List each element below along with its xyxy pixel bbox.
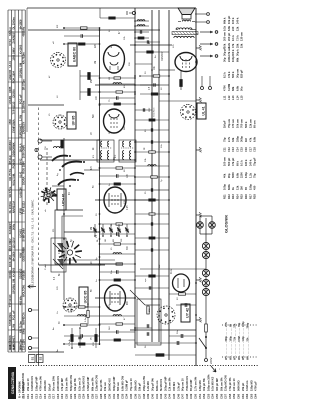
svg-text:C18: C18 <box>253 147 257 152</box>
svg-text:SYMFONIA: SYMFONIA <box>12 119 16 133</box>
svg-text:WOLTOM.: WOLTOM. <box>22 284 26 297</box>
legend header bar <box>8 367 25 399</box>
tube V3 socket top view <box>53 115 67 129</box>
svg-text:SR 571m: SR 571m <box>8 186 12 198</box>
resistor <box>100 323 136 325</box>
band switch wiper arcs <box>52 155 100 187</box>
svg-text:470 om: 470 om <box>231 118 235 128</box>
svg-text:240 om 10: 240 om 10 <box>232 378 236 391</box>
resistor <box>64 43 100 45</box>
svg-text:W1 . . . . . . . . . . 300p: W1 . . . . . . . . . . 300p . . . . . . … <box>225 321 228 360</box>
eye area stubs <box>135 275 169 290</box>
svg-text:1.5W: 1.5W <box>12 323 16 330</box>
speaker LS <box>178 8 195 19</box>
wire riser C <box>95 84 159 86</box>
svg-text:50u: 50u <box>240 86 244 91</box>
bias network components <box>68 303 97 349</box>
svg-text:SR 571m: SR 571m <box>22 79 26 91</box>
svg-text:Uz: Uz <box>57 311 59 314</box>
capacitor <box>135 165 169 167</box>
wire junctions <box>63 27 197 345</box>
resistor <box>100 91 136 93</box>
svg-text:300p: 300p <box>240 136 244 142</box>
svg-text:R18: R18 <box>253 194 257 199</box>
svg-text:9.1k: 9.1k <box>223 25 227 31</box>
svg-text:30p pF 5%: 30p pF 5% <box>151 377 155 391</box>
svg-text:6.8k: 6.8k <box>235 85 239 91</box>
capacitor <box>100 253 136 255</box>
svg-text:390k MO: 390k MO <box>133 380 137 391</box>
svg-text:150p: 150p <box>248 184 252 190</box>
switch frame wires <box>55 210 122 264</box>
wire riser G <box>95 199 159 201</box>
svg-text:C11: C11 <box>223 147 227 152</box>
svg-text:1M: 1M <box>95 61 97 64</box>
svg-text:500 pF: 500 pF <box>227 157 231 166</box>
svg-text:DIORA: DIORA <box>12 89 16 97</box>
svg-text:0.5M pF MP: 0.5M pF MP <box>86 376 90 391</box>
svg-text:UL 41: UL 41 <box>201 106 205 115</box>
svg-text:75p pF: 75p pF <box>253 157 257 166</box>
component value labels <box>54 31 156 340</box>
svg-text:560 k: 560 k <box>231 71 235 78</box>
svg-text:6.8k: 6.8k <box>235 172 239 178</box>
capacitor <box>135 141 151 143</box>
resistor <box>100 263 136 265</box>
svg-text:110p MO OW: 110p MO OW <box>224 375 228 391</box>
svg-text:8.2k om 10: 8.2k om 10 <box>77 377 81 391</box>
svg-text:2.7k: 2.7k <box>227 136 231 142</box>
svg-text:L14: L14 <box>235 95 239 100</box>
svg-text:240 k: 240 k <box>248 159 252 166</box>
svg-text:W2 . . . . . . . . . . 100p: W2 . . . . . . . . . . 100p . . . . . . … <box>229 324 232 360</box>
svg-text:10k: 10k <box>223 43 227 48</box>
svg-text:R13: R13 <box>231 194 235 199</box>
V5 cathode resistor <box>180 70 183 90</box>
svg-text:ROK 1954: ROK 1954 <box>22 161 26 174</box>
svg-text:C64: C64 <box>254 393 258 399</box>
mains plug arrow <box>211 366 222 372</box>
svg-text:UF85: UF85 <box>8 86 12 93</box>
capacitor <box>100 315 136 317</box>
speaker voice coil <box>182 20 190 21</box>
svg-text:110-220V: 110-220V <box>22 339 26 350</box>
filter choke box <box>137 299 161 345</box>
tube V5 UL41 envelope <box>175 53 197 72</box>
svg-text:SUPERHET.: SUPERHET. <box>12 335 16 350</box>
svg-text:47k: 47k <box>231 43 235 48</box>
svg-text:450 MO: 450 MO <box>172 382 176 391</box>
svg-text:90p om 10: 90p om 10 <box>181 378 185 391</box>
svg-text:820k om: 820k om <box>155 380 159 391</box>
svg-text:10k om 5%: 10k om 5% <box>65 377 69 391</box>
parts list left column <box>22 374 258 399</box>
svg-text:WOLTOM.: WOLTOM. <box>12 173 16 186</box>
svg-text:18k pF: 18k pF <box>138 382 142 391</box>
dial lamp <box>202 279 209 286</box>
svg-text:ODBIORNIK: ODBIORNIK <box>22 247 26 262</box>
svg-text:Az: Az <box>52 327 55 330</box>
band switch S1 starburst <box>72 241 74 247</box>
svg-text:R16: R16 <box>244 194 248 199</box>
svg-text:820k: 820k <box>227 184 231 190</box>
antenna coil L1 <box>54 147 63 149</box>
svg-text:5H: 5H <box>145 345 147 348</box>
resistor <box>140 93 169 95</box>
output stage stubs <box>135 40 175 70</box>
svg-text:ROK 1954: ROK 1954 <box>12 70 16 83</box>
output terminal arrow <box>200 55 213 57</box>
tube V5 label <box>197 103 206 119</box>
capacitor <box>135 189 151 191</box>
antenna terminals top-left <box>28 308 38 349</box>
svg-text:POBOR: POBOR <box>12 159 16 169</box>
resistor <box>135 199 169 201</box>
svg-text:GD18/13: GD18/13 <box>8 140 12 151</box>
svg-text:50Hz: 50Hz <box>12 223 16 230</box>
svg-text:C-dial: C-dial <box>45 264 47 270</box>
svg-text:L12: L12 <box>227 95 231 100</box>
svg-text:5k MO KS: 5k MO KS <box>159 379 163 391</box>
chassis ground marks <box>196 45 202 322</box>
svg-text:7mm/5cm: 7mm/5cm <box>154 107 156 117</box>
V4 top resistors <box>80 70 100 100</box>
svg-text:160 k: 160 k <box>244 159 248 166</box>
svg-text:33k pF 5%: 33k pF 5% <box>73 378 77 391</box>
pickup terminals <box>215 31 218 58</box>
svg-text:W5 . . . . . . . . . . 110p: W5 . . . . . . . . . . 110p . . . . . . … <box>242 321 245 360</box>
svg-text:360 pF MP: 360 pF MP <box>215 378 219 391</box>
svg-text:15k om: 15k om <box>103 381 107 391</box>
wire B+ rail <box>134 8 136 348</box>
svg-text:4700 om 5%: 4700 om 5% <box>39 375 43 391</box>
svg-text:6.8k: 6.8k <box>227 25 231 31</box>
svg-text:M=10E6: M=10E6 <box>12 251 16 261</box>
wire riser E <box>40 139 100 141</box>
svg-text:SR: SR <box>105 239 107 242</box>
resistor <box>64 306 100 308</box>
svg-text:TYP 62113: TYP 62113 <box>22 201 26 214</box>
resistor <box>100 77 136 79</box>
wire chassis rail <box>195 8 197 366</box>
svg-text:820 pF: 820 pF <box>240 69 244 78</box>
svg-text:KR: KR <box>113 239 115 242</box>
tube V1 socket top view <box>63 298 77 312</box>
UY42 area stubs <box>134 293 196 329</box>
svg-text:UABC80: UABC80 <box>8 69 12 80</box>
svg-text:25k om 10: 25k om 10 <box>26 378 30 391</box>
svg-text:47k: 47k <box>248 137 252 142</box>
svg-text:POBOR: POBOR <box>22 270 26 280</box>
output terminal arrow <box>200 43 213 45</box>
svg-text:75p om: 75p om <box>227 118 231 128</box>
svg-text:240: 240 <box>231 26 235 31</box>
svg-text:KR 75.5m: KR 75.5m <box>22 52 26 65</box>
svg-text:130p MO: 130p MO <box>198 380 202 391</box>
svg-text:150p MO: 150p MO <box>249 380 253 391</box>
svg-text:GLOSNIK: GLOSNIK <box>224 215 229 233</box>
svg-text:0.25: 0.25 <box>127 205 129 210</box>
svg-text:68k: 68k <box>235 57 239 62</box>
svg-text:1.2k: 1.2k <box>248 172 252 178</box>
svg-text:6.8k: 6.8k <box>253 136 257 142</box>
svg-text:130 om: 130 om <box>240 31 244 41</box>
lamp pair loop <box>197 216 216 234</box>
svg-text:R17: R17 <box>248 194 252 199</box>
PSU filter cluster <box>135 334 196 356</box>
svg-text:10k pF: 10k pF <box>227 15 231 24</box>
svg-text:UCC 85: UCC 85 <box>83 291 87 304</box>
svg-text:200 pF: 200 pF <box>227 32 231 41</box>
wire top rail <box>99 28 101 345</box>
svg-text:68k k: 68k k <box>223 17 227 24</box>
capacitor <box>100 331 117 333</box>
svg-text:12k: 12k <box>235 185 239 190</box>
antenna jack A2 <box>38 155 52 159</box>
svg-text:1000 OM/V: 1000 OM/V <box>12 47 16 60</box>
svg-text:250p: 250p <box>235 136 239 142</box>
rectifier UY42 label <box>181 304 190 322</box>
svg-text:NAPIECIA: NAPIECIA <box>12 201 16 214</box>
antenna series resistor <box>61 140 63 148</box>
svg-text:R15: R15 <box>240 194 244 199</box>
resistor <box>135 151 169 153</box>
mechanical linkage dashed line 2 <box>46 148 48 205</box>
caption arrow <box>28 285 36 288</box>
speaker terminal wires <box>195 13 209 24</box>
wire riser B <box>130 44 172 46</box>
svg-text:POJ. pF: POJ. pF <box>12 310 16 320</box>
svg-text:ROK 1954: ROK 1954 <box>8 254 12 267</box>
svg-text:100p MO KS: 100p MO KS <box>82 376 86 391</box>
tube V1 UCH81 envelope <box>105 285 126 311</box>
svg-text:DIORA: DIORA <box>22 176 26 184</box>
svg-text:C16: C16 <box>244 147 248 152</box>
svg-text:50u om 10%: 50u om 10% <box>52 375 56 391</box>
svg-text:UY 42: UY 42 <box>185 308 189 318</box>
corner resistor <box>100 8 135 19</box>
svg-text:65 pF MP: 65 pF MP <box>189 379 193 391</box>
svg-text:465 kHz: 465 kHz <box>22 26 26 36</box>
svg-text:15k: 15k <box>240 43 244 48</box>
svg-text:~: ~ <box>218 368 222 370</box>
svg-text:L15: L15 <box>240 95 244 100</box>
wire riser D <box>28 104 64 106</box>
svg-text:9.1 k: 9.1 k <box>240 160 244 166</box>
svg-text:220k MO: 220k MO <box>43 380 47 391</box>
screen feed wire <box>159 100 196 102</box>
svg-text:DL 2000m: DL 2000m <box>8 200 12 213</box>
resistor <box>100 243 136 245</box>
svg-text:500p MO OW: 500p MO OW <box>69 374 73 391</box>
svg-text:L13: L13 <box>231 95 235 100</box>
220V terminals <box>205 352 214 364</box>
svg-text:7.5 k: 7.5 k <box>235 35 239 41</box>
svg-text:9.1k MO KS: 9.1k MO KS <box>211 376 215 391</box>
svg-text:2200 MO KS: 2200 MO KS <box>56 376 60 391</box>
wire riser H <box>64 231 100 233</box>
svg-text:30p: 30p <box>223 57 227 62</box>
svg-text:DL 2000m: DL 2000m <box>22 100 26 113</box>
wire riser L <box>28 351 64 353</box>
resistor <box>100 103 136 105</box>
lamp feeder wire <box>140 268 206 270</box>
svg-text:1M pF: 1M pF <box>47 383 51 391</box>
capacitor <box>100 271 117 273</box>
svg-text:W6 . . . . . . . . . . 33k .: W6 . . . . . . . . . . 33k . . . . . . 2… <box>247 322 250 360</box>
svg-text:0.1M om: 0.1M om <box>245 380 249 391</box>
svg-text:OPORN. OM: OPORN. OM <box>12 279 16 294</box>
svg-text:DL 2000m: DL 2000m <box>12 16 16 29</box>
svg-text:47k pF: 47k pF <box>231 157 235 166</box>
svg-text:1.5W: 1.5W <box>18 114 22 121</box>
svg-text:0.1M MO KS: 0.1M MO KS <box>30 376 34 391</box>
svg-text:65 k: 65 k <box>235 160 239 166</box>
tube V3 UF85 envelope <box>104 109 125 133</box>
resistor <box>100 339 136 341</box>
output terminal arrow <box>200 31 213 33</box>
svg-text:68k om 5%: 68k om 5% <box>90 377 94 391</box>
svg-text:560 k: 560 k <box>244 121 248 128</box>
svg-text:130p: 130p <box>244 172 248 178</box>
svg-text:UY42: UY42 <box>8 39 12 46</box>
tube V5 socket top view <box>181 105 196 120</box>
capacitor <box>100 233 117 235</box>
svg-text:12k om 5%: 12k om 5% <box>168 377 172 391</box>
capacitor <box>100 83 136 85</box>
svg-text:450: 450 <box>253 185 257 190</box>
svg-text:UL41: UL41 <box>8 61 12 68</box>
svg-text:ZAKRESY: ZAKRESY <box>22 121 26 134</box>
svg-text:55k om 5%: 55k om 5% <box>219 377 223 391</box>
svg-text:5600 MO: 5600 MO <box>237 380 241 391</box>
dial lamp <box>202 288 209 295</box>
resistor <box>64 324 100 326</box>
svg-text:4700: 4700 <box>223 85 227 91</box>
svg-text:OZNACZENIA: OZNACZENIA <box>11 371 15 394</box>
svg-text:560 om: 560 om <box>116 381 120 391</box>
tube V4 UABC80 envelope <box>104 45 125 73</box>
svg-text:2.7k om 5%: 2.7k om 5% <box>194 376 198 391</box>
resistor <box>100 279 136 281</box>
dial lamp <box>202 251 209 258</box>
svg-text:8.2k: 8.2k <box>227 42 231 48</box>
svg-text:8.2 k: 8.2 k <box>223 72 227 78</box>
svg-text:ODBIORNIK: ODBIORNIK <box>12 142 16 157</box>
trimmer capacitor column <box>93 224 129 242</box>
capacitor <box>100 175 117 177</box>
dial lamp <box>202 269 209 276</box>
resistor <box>135 176 169 178</box>
svg-text:2M: 2M <box>91 227 93 230</box>
svg-text:1.2k MO: 1.2k MO <box>146 381 150 391</box>
svg-text:200 om: 200 om <box>223 31 227 41</box>
svg-text:0.25M pF: 0.25M pF <box>125 379 129 391</box>
resistor <box>100 183 136 185</box>
svg-text:SYMFONIA: SYMFONIA <box>22 228 26 242</box>
wire AVC rail <box>151 10 153 342</box>
wire screen rail <box>158 10 160 342</box>
tube V4 label <box>68 43 77 66</box>
svg-text:1M: 1M <box>109 77 111 80</box>
svg-text:1000 OM/V: 1000 OM/V <box>8 238 12 251</box>
svg-text:120p MO OW: 120p MO OW <box>95 374 99 391</box>
wire riser J <box>95 297 135 299</box>
resistor <box>64 343 100 345</box>
tube V3 label <box>67 112 76 129</box>
fuse <box>205 324 208 332</box>
svg-text:TYP 62113: TYP 62113 <box>8 294 12 307</box>
svg-text:W3 . . . . . . . . . . 7.5k: W3 . . . . . . . . . . 7.5k . . . . . . … <box>234 323 237 360</box>
eye connection wire <box>130 290 145 305</box>
mechanical linkage dashed line <box>38 105 40 270</box>
svg-text:1M: 1M <box>244 138 248 142</box>
svg-text:ZAKRESY: ZAKRESY <box>12 31 16 44</box>
svg-text:3.3k pF: 3.3k pF <box>176 382 180 391</box>
svg-text:C12: C12 <box>227 147 231 152</box>
svg-text:SKALA: SKALA <box>8 27 12 36</box>
svg-text:R11: R11 <box>223 194 227 199</box>
svg-text:160p om 10%: 160p om 10% <box>206 374 210 391</box>
svg-text:250p om 5%: 250p om 5% <box>142 375 146 391</box>
switch label boxes <box>29 355 44 363</box>
mains switch <box>199 336 207 349</box>
pickup jacks <box>201 76 212 90</box>
dial pointer fan <box>43 188 57 200</box>
svg-text:UCH81: UCH81 <box>8 95 12 104</box>
IF transformer can 1 <box>97 140 114 162</box>
mid band extra stubs <box>135 64 169 252</box>
tube V2 UCH81 envelope <box>104 187 126 213</box>
svg-text:68k: 68k <box>231 86 235 91</box>
tone network ladder <box>134 20 149 39</box>
svg-text:110-220V: 110-220V <box>12 237 16 248</box>
svg-text:R12: R12 <box>227 194 231 199</box>
svg-text:1M pF: 1M pF <box>223 120 227 128</box>
dial lamp <box>202 242 209 249</box>
svg-text:30p om: 30p om <box>235 68 239 78</box>
svg-text:2200: 2200 <box>240 172 244 178</box>
resistor <box>64 27 100 29</box>
svg-text:240 k: 240 k <box>235 17 239 24</box>
wire heater rail <box>168 10 170 360</box>
svg-text:700 om: 700 om <box>240 118 244 128</box>
tuning eye tube <box>169 268 190 292</box>
svg-text:5600: 5600 <box>231 172 235 178</box>
svg-text:PO: PO <box>53 229 55 232</box>
wire riser I <box>39 264 106 266</box>
svg-text:GR: GR <box>121 238 123 242</box>
resistor <box>100 223 136 225</box>
svg-text:0.3mA: 0.3mA <box>84 315 87 322</box>
svg-text:465 kHz: 465 kHz <box>8 155 12 165</box>
svg-text:47k k: 47k k <box>227 71 231 78</box>
svg-text:90p: 90p <box>227 173 231 178</box>
svg-text:DIORA: DIORA <box>8 270 12 278</box>
svg-text:75p: 75p <box>223 137 227 142</box>
svg-text:50Hz: 50Hz <box>22 328 26 335</box>
svg-text:K=1000: K=1000 <box>12 267 16 277</box>
wire grid rail <box>38 268 40 365</box>
speaker wires <box>178 21 181 23</box>
leader dots column 1 <box>222 324 258 326</box>
svg-text:ODBIORNIK: ODBIORNIK <box>8 335 12 350</box>
svg-text:KR 75.5m: KR 75.5m <box>8 168 12 181</box>
svg-text:65 om: 65 om <box>253 120 257 128</box>
dotted separator line <box>20 365 258 367</box>
svg-text:10k om: 10k om <box>235 118 239 128</box>
svg-text:300 k: 300 k <box>231 49 235 56</box>
